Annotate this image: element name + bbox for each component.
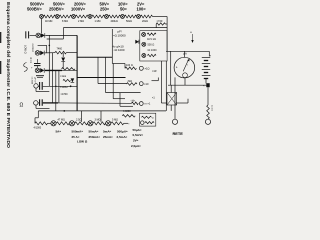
- svg-text:Ω: Ω: [20, 103, 24, 109]
- svg-text:20kΩ: 20kΩ: [142, 20, 148, 23]
- svg-text:50kΩ: 50kΩ: [126, 20, 132, 23]
- svg-text:1000V≈: 1000V≈: [71, 7, 86, 12]
- svg-text:500 Ω: 500 Ω: [148, 43, 155, 46]
- svg-text:×100Ω: ×100Ω: [60, 86, 68, 89]
- svg-text:2 MΩ: 2 MΩ: [78, 20, 84, 23]
- svg-text:7460: 7460: [57, 48, 63, 51]
- svg-text:pF≈V: pF≈V: [34, 78, 37, 84]
- svg-text:5A≈: 5A≈: [56, 129, 62, 133]
- svg-text:≈Ω 1000: ≈Ω 1000: [114, 48, 125, 52]
- svg-text:4/1000: 4/1000: [34, 127, 42, 130]
- svg-text:47 MΩ: 47 MΩ: [58, 119, 66, 122]
- svg-text:25mA≈: 25mA≈: [103, 135, 113, 139]
- svg-text:OUTPUT: OUTPUT: [31, 44, 33, 53]
- svg-text:2.5Ω: 2.5Ω: [76, 119, 81, 122]
- svg-text:RETE: RETE: [173, 131, 184, 136]
- svg-text:250mA≈: 250mA≈: [89, 135, 101, 139]
- svg-text:50≈: 50≈: [120, 7, 128, 12]
- svg-text:LOW Ω: LOW Ω: [24, 45, 28, 54]
- svg-text:×1Ω: ×1Ω: [145, 67, 150, 71]
- svg-text:Ω ×1: Ω ×1: [29, 58, 32, 64]
- svg-text:≈Ω 10000: ≈Ω 10000: [113, 33, 126, 37]
- svg-text:0,5mV≈: 0,5mV≈: [133, 133, 144, 137]
- svg-text:Esquema completo del Supertest: Esquema completo del Supertester I.C.E. …: [6, 2, 11, 149]
- svg-text:5 MΩ: 5 MΩ: [112, 119, 118, 122]
- svg-text:μA: μA: [184, 52, 187, 56]
- svg-text:50μA≈: 50μA≈: [133, 128, 142, 132]
- svg-text:×720: ×720: [157, 19, 163, 23]
- svg-text:4.0000: 4.0000: [123, 110, 131, 113]
- svg-text:100≈: 100≈: [137, 7, 147, 12]
- svg-text:LOW Ω: LOW Ω: [77, 140, 88, 144]
- svg-text:≈Ω 1000: ≈Ω 1000: [147, 49, 157, 52]
- svg-text:25 A≈: 25 A≈: [72, 135, 80, 139]
- svg-text:2,0μA≈: 2,0μA≈: [131, 144, 141, 148]
- svg-text:400kΩ: 400kΩ: [111, 20, 118, 23]
- svg-text:250BV≈: 250BV≈: [49, 7, 65, 12]
- svg-text:+: +: [190, 31, 192, 35]
- svg-text:×1ΞΞ: ×1ΞΞ: [60, 75, 66, 78]
- svg-text:500μA≈: 500μA≈: [117, 129, 128, 133]
- svg-text:2,5mA≈: 2,5mA≈: [117, 135, 128, 139]
- svg-text:3 MΩ: 3 MΩ: [95, 119, 101, 122]
- svg-text:50mA≈: 50mA≈: [89, 129, 99, 133]
- svg-text:500mA≈: 500mA≈: [72, 129, 84, 133]
- svg-text:×10!: ×10!: [152, 70, 157, 73]
- svg-text:40 MΩ: 40 MΩ: [45, 20, 53, 23]
- svg-text:500BV≈: 500BV≈: [27, 7, 43, 12]
- svg-text:5mA≈: 5mA≈: [103, 129, 112, 133]
- svg-text:8 MΩ: 8 MΩ: [62, 20, 68, 23]
- svg-text:m ×1: m ×1: [145, 102, 151, 106]
- svg-text:Ω×V kΩ: Ω×V kΩ: [147, 38, 156, 41]
- svg-text:×4 4600: ×4 4600: [31, 77, 34, 85]
- svg-text:×4700: ×4700: [61, 93, 69, 96]
- svg-text:no me: no me: [211, 105, 213, 112]
- svg-text:2V≈: 2V≈: [133, 138, 139, 142]
- svg-text:250≈: 250≈: [100, 7, 110, 12]
- svg-text:×10: ×10: [144, 82, 149, 86]
- svg-text:100 Ω: 100 Ω: [126, 64, 133, 67]
- svg-text:1 MΩ: 1 MΩ: [95, 20, 101, 23]
- svg-text:+: +: [176, 66, 178, 70]
